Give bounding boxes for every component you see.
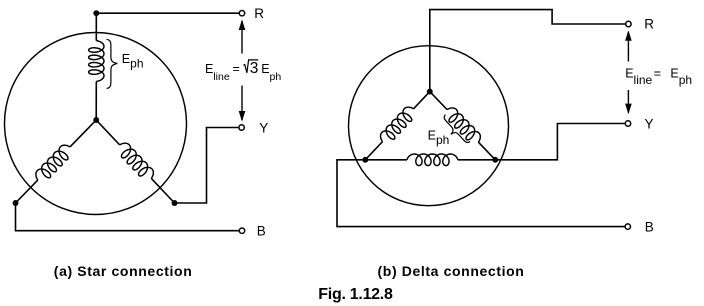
- junction dot: lower-right: [172, 200, 178, 206]
- svg-text:Y: Y: [259, 120, 268, 135]
- wire: lower-left node down and across to B terminal: [16, 203, 239, 231]
- svg-text:(a) Star connection: (a) Star connection: [54, 263, 193, 279]
- svg-text:R: R: [254, 6, 264, 21]
- wire: star point to lower-right node (lead segments): [96, 120, 119, 145]
- svg-text:=: =: [654, 66, 661, 80]
- brace for E_ph (star): [107, 39, 118, 88]
- wire: lower-right node to Y terminal (up and over): [175, 128, 239, 204]
- terminal R (delta): [626, 21, 631, 26]
- junction dot: delta right corner: [492, 157, 498, 163]
- terminal R (star): [239, 11, 244, 16]
- svg-text:Y: Y: [645, 116, 654, 131]
- stator circle (delta machine outline): [349, 46, 509, 206]
- junction dot: delta left corner: [362, 157, 368, 163]
- winding coil B-phase (star lower-left): [36, 145, 70, 180]
- wire: coil to star point: [95, 81, 97, 120]
- wire: delta apex up, over and down to R terminal: [430, 10, 626, 92]
- terminal Y (delta): [625, 121, 630, 126]
- wire: top junction down into winding: [95, 13, 97, 40]
- wire: delta left corner out, down and across to B terminal: [337, 160, 625, 227]
- svg-text:3: 3: [250, 60, 259, 77]
- winding coil (delta left side): [381, 107, 414, 141]
- winding coil (delta right side): [447, 108, 480, 142]
- junction dot: star point (neutral): [93, 117, 99, 123]
- svg-text:=: =: [233, 62, 240, 76]
- winding coil R-phase (star top): [89, 41, 104, 82]
- wire: star point to lower-left node (lead segments): [70, 120, 96, 147]
- line-voltage arrow (delta), upper segment with arrowhead: [627, 32, 629, 62]
- wire: delta right corner out, up to Y terminal: [495, 124, 625, 160]
- line-voltage arrow (star), upper segment with arrowhead: [241, 21, 243, 54]
- wire: delta right side (lead segments): [430, 92, 447, 110]
- equation E_line = E_ph (delta): [625, 66, 692, 87]
- brace for E_ph (delta right winding): [438, 115, 470, 148]
- terminal Y (star): [239, 125, 244, 130]
- svg-text:(b) Delta connection: (b) Delta connection: [378, 263, 525, 279]
- svg-text:Fig. 1.12.8: Fig. 1.12.8: [318, 286, 393, 303]
- junction dot: lower-left: [13, 200, 19, 206]
- junction dot: delta apex: [427, 89, 433, 95]
- terminal B (star): [239, 228, 244, 233]
- wire: top junction to R terminal: [96, 12, 239, 14]
- junction dot: star top: [93, 10, 99, 16]
- svg-text:R: R: [644, 17, 654, 32]
- wire: delta left side (lead segments): [414, 92, 430, 109]
- line-voltage arrow (delta), lower segment with arrowhead: [627, 90, 629, 113]
- wire: delta bottom side (lead segments): [365, 159, 407, 161]
- line-voltage arrow (star), lower segment with arrowhead: [241, 86, 243, 121]
- stator circle (star machine outline): [5, 33, 187, 215]
- terminal B (delta): [625, 224, 630, 229]
- winding coil Y-phase (star lower-right): [120, 143, 154, 178]
- winding coil (delta bottom side): [407, 154, 458, 166]
- equation E_line = sqrt(3) E_ph: [205, 60, 281, 83]
- svg-text:B: B: [257, 224, 266, 239]
- svg-text:B: B: [645, 219, 654, 234]
